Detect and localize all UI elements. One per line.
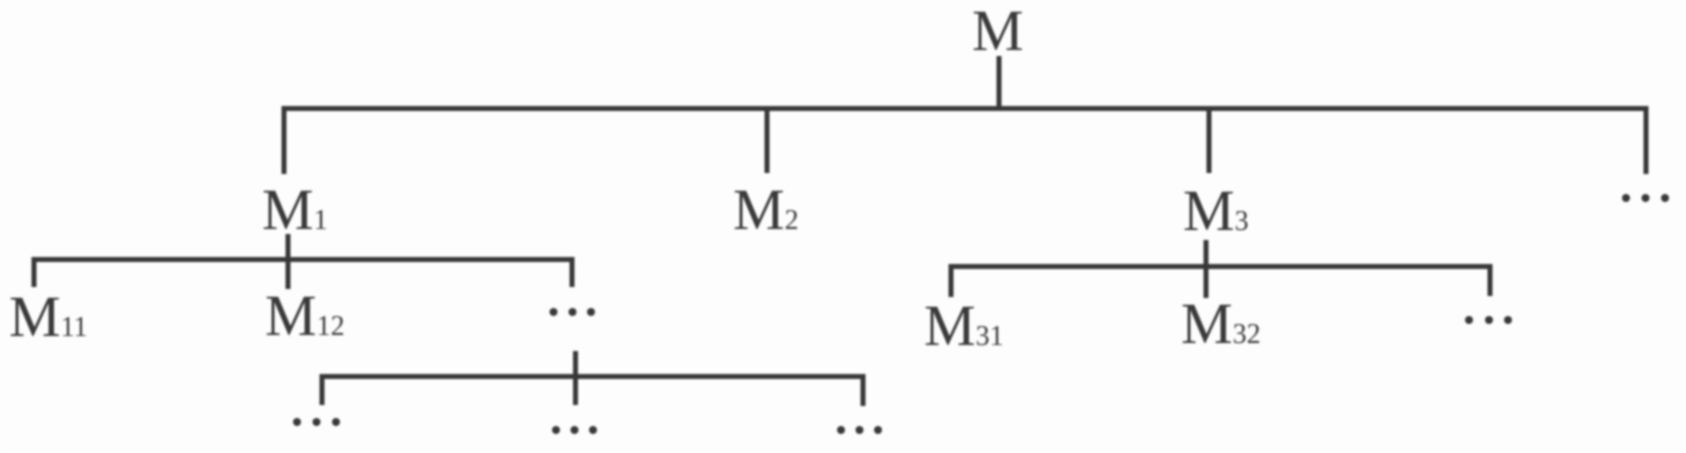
wire drop to M11 xyxy=(32,257,37,287)
wire level-3 center stub xyxy=(573,351,578,405)
node M11 xyxy=(9,284,88,349)
wire level-3 bus xyxy=(320,374,866,379)
wire M1 child bus xyxy=(32,257,575,262)
node ellipsis (level 3, right) xyxy=(837,426,882,434)
wire drop to ellipsis (level 3, left) xyxy=(320,374,325,405)
node M3 xyxy=(1183,178,1249,243)
wire drop to M2 xyxy=(765,106,770,173)
node M1 xyxy=(262,177,328,242)
node M31 xyxy=(924,293,1004,358)
node M12 xyxy=(265,283,345,348)
node M2 xyxy=(733,177,799,242)
wire drop to ellipsis (M3 third child) xyxy=(1488,264,1493,296)
node ellipsis (M1 third child) xyxy=(550,308,596,316)
wire drop to ellipsis (M1 third child) xyxy=(570,257,575,287)
wire drop to ellipsis (level 3, right) xyxy=(861,374,866,406)
node M (root) xyxy=(972,0,1024,63)
wire M3 child bus xyxy=(949,264,1493,269)
node ellipsis (level 3, left) xyxy=(293,418,340,426)
wire level-1 bus xyxy=(282,106,1649,111)
wire M1 stub down xyxy=(286,234,291,289)
wire drop to M3 xyxy=(1207,106,1212,173)
wire M3 stub down xyxy=(1204,240,1209,298)
wire drop to M1 xyxy=(282,106,287,174)
wire drop to ellipsis (level 1) xyxy=(1644,106,1649,174)
svg-text:M: M xyxy=(972,0,1024,63)
node ellipsis (level 3, center) xyxy=(552,426,597,434)
node ellipsis (level 1, right) xyxy=(1622,194,1669,202)
node ellipsis (M3 third child) xyxy=(1465,316,1512,324)
node M32 xyxy=(1181,291,1261,356)
wire drop to M31 xyxy=(949,264,954,297)
wire root stub xyxy=(997,56,1002,111)
